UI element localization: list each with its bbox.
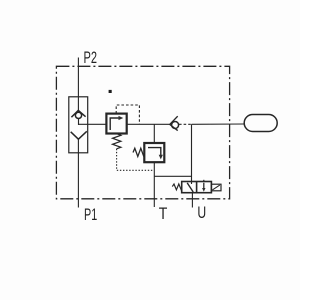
wire below ball (78, 119, 80, 126)
spring S1 below RV1 (113, 134, 121, 149)
DV1 right cell arrow (203, 183, 205, 189)
svg-text:P1: P1 (84, 206, 97, 224)
check valve CV1 chevron (71, 131, 87, 139)
wire main line left segment (79, 123, 107, 125)
relief valve RV2 arrow (148, 148, 161, 156)
spring S2 left of RV2 (133, 148, 144, 156)
relief valve RV1 body (106, 114, 126, 134)
DV1 pilot actuator box (211, 184, 221, 191)
check valve CV1 ball (75, 112, 81, 118)
svg-text:T: T (159, 205, 168, 223)
wire junction down to valve (191, 124, 193, 184)
wire main line right segment (192, 123, 245, 125)
relief valve RV1 arrow (110, 118, 119, 130)
svg-text:U: U (197, 204, 206, 222)
drain dotted line to T (117, 149, 155, 171)
dot marker (109, 90, 112, 93)
wire main line mid segment (127, 123, 170, 125)
check valve CV1 body (pilot check valve) (69, 97, 88, 153)
wire dashed pilot segment (179, 123, 192, 125)
wire RV2 to T port (153, 162, 155, 207)
wire U port (191, 193, 193, 208)
DV1 spring (172, 184, 181, 190)
check valve CV2 ball (172, 122, 179, 129)
relief valve RV2 body (144, 143, 164, 162)
enclosure dash-dot border (56, 66, 229, 199)
wire cross link to valve (154, 175, 191, 177)
check valve CV1 seat (71, 110, 85, 117)
DV1 left cell diagonal (187, 183, 193, 192)
check valve CV2 seat (170, 116, 178, 130)
actuator pill (244, 115, 277, 132)
wire branch down to RV2 (153, 124, 155, 143)
wire P1 outlet (77, 139, 79, 207)
directional valve DV1 body (182, 182, 212, 193)
svg-text:P2: P2 (84, 49, 98, 67)
relief valve RV1 pilot dashed line (116, 105, 139, 124)
wire P2 inlet (77, 58, 79, 111)
